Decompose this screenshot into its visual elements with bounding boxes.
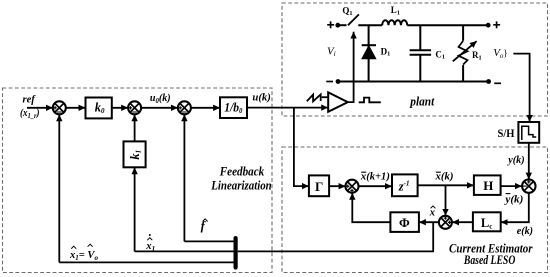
- wire junction down to summer SL: [445, 185, 447, 215]
- block Lc: [473, 212, 501, 231]
- svg-text:x: x: [429, 208, 435, 219]
- svg-text:Q1: Q1: [342, 6, 352, 17]
- wire x1 hat horizontal to bus: [59, 261, 235, 263]
- svg-text:Γ: Γ: [315, 179, 323, 194]
- node ref input label: [20, 95, 40, 120]
- summer SR: [522, 179, 535, 192]
- block S/H sample hold: [498, 122, 540, 143]
- svg-text:u(k): u(k): [252, 92, 271, 103]
- svg-text:(x1_r): (x1_r): [20, 108, 40, 120]
- summer S2: [128, 101, 141, 114]
- wire sawtooth to comparator: [322, 96, 329, 98]
- inductor L1: [382, 5, 407, 25]
- svg-text:H: H: [483, 178, 493, 193]
- block Phi: [390, 212, 419, 232]
- node xbar(k+1) label: [360, 172, 390, 183]
- svg-text:Linearization: Linearization: [210, 178, 271, 193]
- svg-text:u0(k): u0(k): [150, 93, 171, 105]
- block 1/b0: [220, 97, 247, 118]
- label Current Estimator Based LESO: [449, 241, 533, 267]
- block k1: [124, 141, 146, 167]
- block Gamma: [309, 175, 329, 196]
- wire xdot1 up into k1: [134, 168, 136, 252]
- node xdot1 hat label: [145, 234, 155, 253]
- capacitor C1: [410, 25, 445, 81]
- block k0: [86, 98, 112, 119]
- plus terminal Vo top: [493, 21, 500, 28]
- transistor switch Q1: [338, 6, 359, 26]
- summer SO: [346, 180, 359, 193]
- wire SO to z-1: [359, 185, 392, 187]
- wire bus to LESO x-hat tap: [238, 222, 434, 251]
- minus terminal Vi bottom: [326, 81, 333, 83]
- block z-1: [392, 174, 418, 196]
- wire S2 to summer S3: [141, 107, 178, 109]
- svg-text:Φ: Φ: [399, 215, 410, 230]
- plant dashed box: [282, 3, 548, 116]
- wire Lc to summer SL: [452, 221, 473, 223]
- wire Gamma to summer SO: [329, 185, 345, 187]
- LESO dashed box: [282, 147, 548, 273]
- wire S/H down to summer SR: [528, 143, 530, 180]
- wire x1 hat up into S1: [58, 115, 60, 263]
- svg-text:D1: D1: [381, 46, 391, 57]
- svg-text:x(k): x(k): [434, 172, 453, 183]
- node output - terminal dot: [486, 79, 491, 84]
- block H: [474, 175, 501, 195]
- node ybar(k) label: [503, 194, 523, 206]
- wire H to summer SR: [501, 185, 522, 187]
- node Vi top terminal dot: [335, 23, 340, 28]
- wire z-1 to H: [418, 184, 474, 186]
- node Vi bottom terminal dot: [336, 79, 341, 84]
- wire S3 to 1/b0: [191, 107, 220, 109]
- wire SL to Phi: [419, 221, 439, 223]
- svg-text:e(k): e(k): [517, 226, 533, 237]
- node x1hat = Vo hat label: [69, 244, 99, 262]
- svg-text:Vo}: Vo}: [493, 47, 508, 60]
- wire ref to summer S1: [27, 107, 53, 109]
- wire bottom rail: [338, 81, 489, 83]
- minus terminal Vo bottom: [494, 82, 501, 84]
- svg-text:x1: x1: [145, 241, 155, 253]
- sawtooth carrier icon: [307, 94, 321, 101]
- label Feedback Linearization: [210, 164, 271, 193]
- wire top rail switch to L1: [358, 24, 382, 26]
- wire comparator output up to Q1 gate: [348, 32, 354, 102]
- wire top rail L1 to output: [407, 24, 488, 26]
- wire S1 to k0: [66, 107, 85, 109]
- svg-text:x(k+1): x(k+1): [360, 172, 390, 183]
- svg-text:plant: plant: [409, 94, 434, 109]
- wire k0 to summer S2: [112, 107, 128, 109]
- wire Vo to S/H: [513, 54, 529, 122]
- node x hat label: [429, 206, 436, 219]
- wire f hat horizontal to bus: [184, 240, 235, 242]
- summer S1: [53, 101, 66, 114]
- svg-text:Based LESO: Based LESO: [463, 252, 516, 267]
- svg-text:ref: ref: [23, 95, 37, 106]
- svg-text:y(k): y(k): [506, 155, 524, 166]
- summer SL: [439, 216, 452, 229]
- resistor R1 variable load: [453, 25, 482, 81]
- bus bar: [234, 236, 238, 270]
- wire SR down and left to Lc: [501, 193, 529, 222]
- svg-text:Feedback: Feedback: [219, 164, 265, 179]
- svg-text:R1: R1: [472, 50, 482, 61]
- wire f hat up into S3: [183, 115, 185, 242]
- wire Phi left and up to summer SO: [352, 193, 390, 222]
- svg-text:y(k): y(k): [503, 194, 523, 205]
- feedback linearization dashed box: [3, 88, 273, 273]
- summer S3: [178, 101, 191, 114]
- node xbar(k) label: [434, 172, 453, 183]
- wire u(k) branch down to Gamma input: [294, 108, 309, 186]
- op-amp comparator triangle: [328, 92, 348, 111]
- svg-text:x1= Vo: x1= Vo: [69, 250, 99, 262]
- svg-text:C1: C1: [435, 49, 445, 60]
- plus terminal Vi top: [327, 21, 334, 28]
- wire xdot1 horizontal to bus: [135, 250, 235, 252]
- svg-text:L1: L1: [391, 5, 400, 16]
- wire u(k) to comparator: [247, 107, 328, 109]
- svg-text:S/H: S/H: [498, 128, 515, 140]
- pulse PWM icon: [359, 98, 381, 103]
- svg-text:Vi: Vi: [327, 45, 336, 58]
- node output + terminal dot: [486, 23, 491, 28]
- node f hat label: [201, 219, 208, 233]
- diode D1: [362, 25, 391, 81]
- wire k1 up to S2: [134, 115, 136, 142]
